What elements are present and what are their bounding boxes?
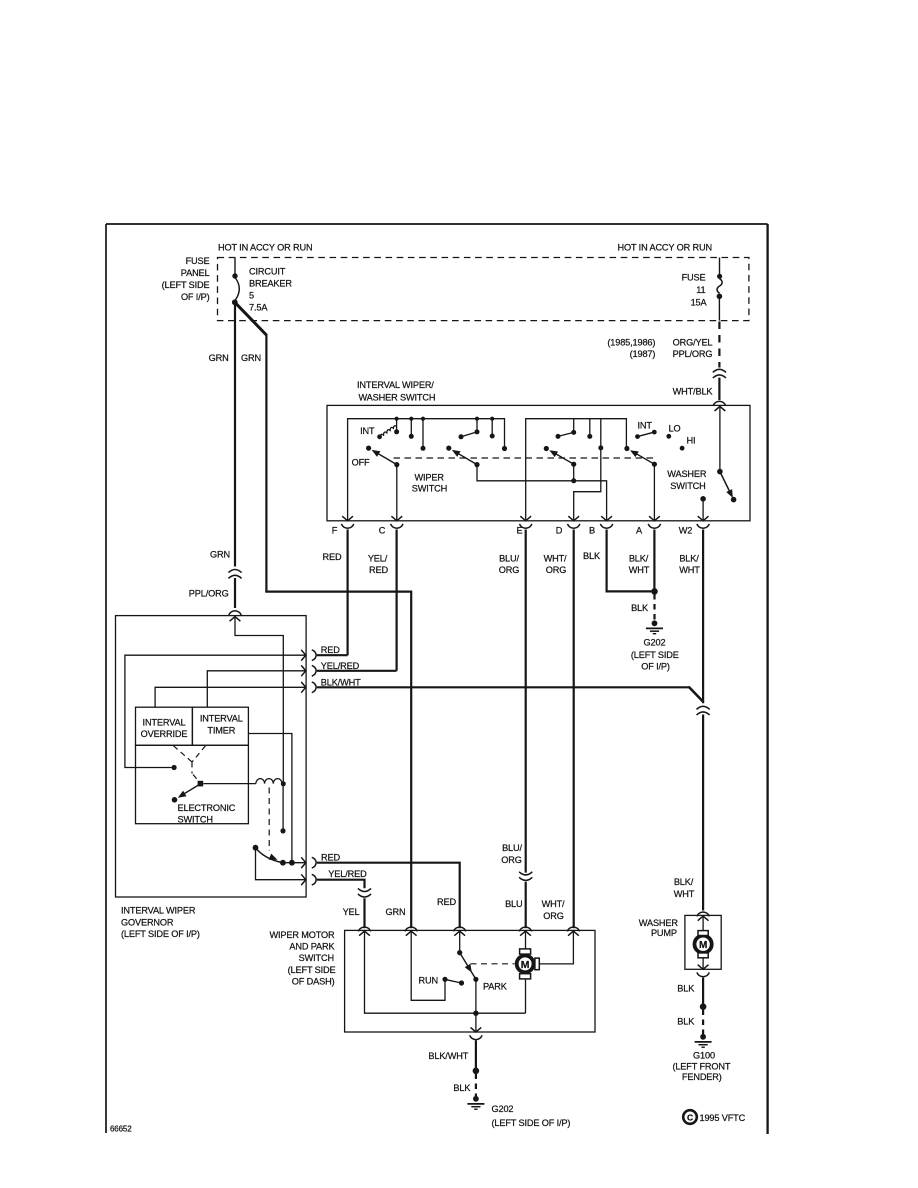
svg-text:PARK: PARK	[483, 981, 508, 991]
wire W2 BLK/WHT to washer pump	[702, 530, 704, 704]
governor internal feed wire to coil	[235, 617, 283, 782]
park switch arm	[459, 931, 461, 950]
svg-text:(LEFT SIDE: (LEFT SIDE	[288, 965, 336, 975]
svg-text:BLK/WHT: BLK/WHT	[428, 1051, 468, 1061]
ground G100 (left front fender)	[695, 1034, 712, 1047]
wiper switch dashed off line	[394, 457, 657, 459]
svg-text:INTERVAL: INTERVAL	[143, 717, 186, 727]
svg-text:A: A	[636, 526, 643, 536]
svg-text:YEL: YEL	[343, 907, 360, 917]
washer switch W2 contact	[700, 496, 706, 502]
governor input BLK/WHT	[301, 682, 306, 693]
svg-text:FENDER): FENDER)	[682, 1072, 722, 1082]
wire BLK/WHT motor to G202	[475, 1041, 477, 1069]
svg-text:BLK: BLK	[583, 551, 601, 561]
wire ORG/YEL PPL/ORG dashed (fuse output)	[718, 322, 720, 361]
governor input RED	[301, 650, 306, 661]
park mechanical link (dashed)	[471, 963, 515, 965]
svg-text:1995 VFTC: 1995 VFTC	[700, 1113, 746, 1123]
motor low side wire	[525, 979, 527, 1013]
wire BLK to G202 (dashed)	[653, 594, 655, 621]
governor top entry connector	[229, 611, 241, 615]
wire F RED to governor	[347, 530, 349, 656]
svg-text:F: F	[332, 526, 338, 536]
wire E BLU/ORG to wiper motor	[525, 530, 527, 873]
svg-text:SWITCH: SWITCH	[670, 481, 705, 491]
svg-text:(LEFT SIDE: (LEFT SIDE	[162, 280, 210, 290]
svg-text:BLK/: BLK/	[674, 877, 694, 887]
wire BLK/WHT governor to W2	[317, 686, 690, 688]
wire WHT/BLK	[718, 378, 720, 400]
svg-text:15A: 15A	[691, 297, 708, 307]
svg-text:WASHER: WASHER	[639, 918, 679, 928]
svg-text:WHT/: WHT/	[544, 553, 567, 563]
svg-text:PUMP: PUMP	[651, 928, 677, 938]
fuse 11 15A	[682, 258, 723, 321]
svg-text:TIMER: TIMER	[207, 725, 235, 735]
wire D WHT/ORG to wiper motor	[573, 530, 575, 929]
svg-text:CIRCUIT: CIRCUIT	[249, 267, 286, 277]
svg-text:WHT: WHT	[674, 889, 695, 899]
svg-text:GOVERNOR: GOVERNOR	[121, 918, 174, 928]
relay coil	[203, 783, 256, 785]
interval timer box	[192, 707, 248, 745]
svg-text:PPL/ORG: PPL/ORG	[189, 589, 229, 599]
svg-text:LO: LO	[669, 423, 681, 433]
svg-text:RUN: RUN	[419, 975, 438, 985]
svg-text:(LEFT SIDE OF I/P): (LEFT SIDE OF I/P)	[492, 1118, 571, 1128]
svg-text:WHT: WHT	[679, 565, 700, 575]
svg-text:PANEL: PANEL	[181, 268, 210, 278]
wire BLK dashed to G202	[475, 1074, 477, 1097]
svg-text:YEL/RED: YEL/RED	[328, 869, 367, 879]
svg-text:WIPER: WIPER	[415, 473, 445, 483]
svg-text:GRN: GRN	[210, 549, 230, 559]
pin letters F C E D B A W2	[332, 526, 693, 536]
svg-text:ORG: ORG	[543, 911, 563, 921]
svg-text:OF I/P): OF I/P)	[641, 662, 670, 672]
switch box pin arrows and brackets	[341, 516, 709, 528]
svg-text:INTERVAL WIPER: INTERVAL WIPER	[121, 906, 196, 916]
svg-text:FUSE: FUSE	[186, 256, 210, 266]
electronic switch pivot handle	[198, 781, 204, 787]
svg-text:M: M	[699, 940, 707, 951]
svg-text:RED: RED	[437, 897, 456, 907]
svg-text:RED: RED	[323, 552, 342, 562]
wiper switch arm 4	[624, 446, 629, 451]
svg-text:ORG: ORG	[546, 565, 566, 575]
svg-text:BLU: BLU	[505, 899, 522, 909]
node A/B junction	[651, 588, 658, 595]
svg-text:ORG: ORG	[501, 855, 521, 865]
connector inline BLU/ORG-BLU	[519, 872, 532, 875]
svg-text:WHT: WHT	[629, 565, 650, 575]
governor output YEL/RED	[256, 848, 306, 880]
svg-text:BLK: BLK	[453, 1083, 471, 1093]
svg-text:11: 11	[696, 285, 705, 295]
wire C YEL/RED to governor	[396, 530, 398, 671]
svg-text:G100: G100	[693, 1050, 715, 1060]
wiper switch bus 2	[526, 419, 627, 521]
svg-text:WHT/: WHT/	[542, 899, 565, 909]
wire GRN 1 (breaker to governor)	[234, 303, 236, 567]
svg-text:(LEFT SIDE OF I/P): (LEFT SIDE OF I/P)	[121, 929, 200, 939]
governor latch switch	[253, 845, 259, 851]
svg-text:RED: RED	[321, 853, 340, 863]
svg-text:WHT/BLK: WHT/BLK	[673, 387, 714, 397]
svg-text:ORG/YEL: ORG/YEL	[673, 338, 713, 348]
ground G202 (left side of I/P) lower	[467, 1096, 484, 1109]
interval wiper governor box	[116, 616, 307, 897]
svg-text:PPL/ORG: PPL/ORG	[673, 349, 713, 359]
svg-text:GRN: GRN	[386, 907, 406, 917]
svg-text:WASHER SWITCH: WASHER SWITCH	[359, 392, 436, 402]
svg-text:ELECTRONIC: ELECTRONIC	[178, 803, 236, 813]
copyright 1995 VFTC	[683, 1110, 745, 1124]
svg-text:(LEFT SIDE: (LEFT SIDE	[631, 650, 679, 660]
motor M symbol	[517, 949, 540, 979]
svg-text:7.5A: 7.5A	[249, 302, 268, 312]
connector inline W2/pump	[697, 706, 710, 709]
svg-text:SWITCH: SWITCH	[178, 814, 213, 824]
svg-text:RED: RED	[321, 645, 340, 655]
motor internal YEL wire to motor low	[365, 931, 526, 1013]
svg-text:BLK/: BLK/	[629, 553, 649, 563]
wire YEL/RED pin C to governor	[317, 670, 397, 672]
svg-text:INT: INT	[360, 426, 375, 436]
svg-text:OFF: OFF	[352, 457, 370, 467]
wire GRN 2 (breaker to wiper motor)	[235, 302, 411, 928]
svg-text:M: M	[521, 959, 530, 971]
fuse panel dashed box	[218, 258, 749, 321]
svg-text:HI: HI	[687, 435, 696, 445]
connector inline GRN/PPL-ORG	[228, 570, 241, 573]
governor output RED	[283, 862, 306, 864]
electronic switch arm	[180, 785, 199, 796]
svg-text:W2: W2	[679, 526, 693, 536]
svg-text:C: C	[379, 526, 386, 536]
wire BLK dashed to G100	[702, 1010, 704, 1035]
svg-text:OVERRIDE: OVERRIDE	[141, 729, 188, 739]
wire A BLK/WHT	[653, 530, 655, 592]
ground G202 (left side of I/P) upper	[646, 620, 663, 633]
INT resistor squiggle	[377, 434, 382, 439]
svg-text:(LEFT FRONT: (LEFT FRONT	[672, 1062, 730, 1072]
interval override box	[136, 707, 193, 745]
wire RED governor to motor	[317, 863, 460, 929]
svg-text:GRN: GRN	[209, 353, 229, 363]
washer switch arm	[715, 406, 726, 411]
wiper switch bus 1	[348, 419, 505, 521]
svg-text:RED: RED	[369, 565, 388, 575]
wiper switch arm 1 (OFF)	[366, 446, 371, 451]
svg-text:WIPER MOTOR: WIPER MOTOR	[269, 930, 335, 940]
svg-text:INTERVAL WIPER/: INTERVAL WIPER/	[357, 380, 434, 390]
svg-text:BLU/: BLU/	[499, 553, 519, 563]
svg-text:G202: G202	[644, 638, 666, 648]
svg-text:BLK: BLK	[631, 603, 649, 613]
motor WHT/ORG wire	[539, 931, 573, 964]
svg-text:FUSE: FUSE	[682, 273, 706, 283]
fuse panel label	[162, 256, 210, 302]
svg-text:66652: 66652	[110, 1125, 132, 1134]
interval wiper/washer switch box	[327, 405, 750, 520]
connector inline ORG-YEL/WHT-BLK	[718, 362, 720, 368]
svg-text:BREAKER: BREAKER	[249, 279, 292, 289]
washer pump ground side	[702, 958, 704, 970]
svg-text:HOT IN ACCY OR RUN: HOT IN ACCY OR RUN	[618, 243, 712, 253]
svg-text:(1985,1986): (1985,1986)	[607, 338, 655, 348]
wiper switch arm 2	[446, 446, 451, 451]
svg-text:5: 5	[249, 291, 254, 301]
motor internal GRN wire to RUN contact	[411, 931, 445, 1000]
wire BLK pump to G100	[702, 978, 704, 1004]
wiper switch arm 3	[544, 446, 549, 451]
park common wire to ground exit	[475, 979, 477, 1032]
svg-text:BLK: BLK	[677, 1017, 695, 1027]
svg-text:BLK/: BLK/	[679, 553, 699, 563]
svg-text:C: C	[687, 1113, 693, 1123]
svg-text:AND PARK: AND PARK	[289, 942, 335, 952]
svg-text:GRN: GRN	[241, 353, 261, 363]
svg-text:BLK: BLK	[677, 984, 695, 994]
motor BLU feed wire	[525, 931, 527, 949]
governor input YEL/RED	[301, 665, 306, 676]
svg-text:BLK/WHT: BLK/WHT	[321, 677, 361, 687]
svg-text:OF DASH): OF DASH)	[292, 977, 335, 987]
wire YEL/RED-YEL governor to motor	[317, 880, 365, 889]
svg-text:ORG: ORG	[499, 565, 519, 575]
svg-text:BLU/: BLU/	[502, 843, 522, 853]
motor box entry connectors (YEL GRN RED BLU WHT/ORG)	[358, 927, 579, 936]
svg-text:G202: G202	[492, 1104, 514, 1114]
electronic switch box	[136, 745, 249, 823]
svg-text:B: B	[589, 526, 595, 536]
svg-text:HOT IN ACCY OR RUN: HOT IN ACCY OR RUN	[218, 243, 312, 253]
wire RED pin F to governor	[317, 654, 348, 656]
svg-text:INTERVAL: INTERVAL	[200, 714, 243, 724]
page border frame	[106, 224, 768, 1134]
svg-text:SWITCH: SWITCH	[299, 953, 334, 963]
wire B BLK	[607, 530, 655, 592]
wiper motor and park switch box	[345, 930, 595, 1032]
svg-text:YEL/RED: YEL/RED	[321, 661, 360, 671]
coil lower contact stub	[282, 786, 284, 829]
svg-text:D: D	[556, 526, 563, 536]
washer pump motor M	[695, 916, 712, 958]
svg-text:E: E	[517, 526, 523, 536]
washer pump box	[685, 915, 721, 969]
svg-text:(1987): (1987)	[630, 349, 656, 359]
mechanical link coil to latch (dashed)	[268, 788, 270, 852]
timer to latch wire	[248, 734, 292, 861]
svg-text:SWITCH: SWITCH	[412, 484, 447, 494]
svg-text:OF I/P): OF I/P)	[181, 292, 210, 302]
svg-text:YEL/: YEL/	[368, 553, 388, 563]
run contact	[442, 977, 447, 982]
svg-text:WASHER: WASHER	[667, 469, 707, 479]
mechanical Y link (dashed)	[174, 746, 206, 781]
circuit breaker 5 7.5A	[232, 258, 292, 313]
svg-text:INT: INT	[638, 420, 653, 430]
